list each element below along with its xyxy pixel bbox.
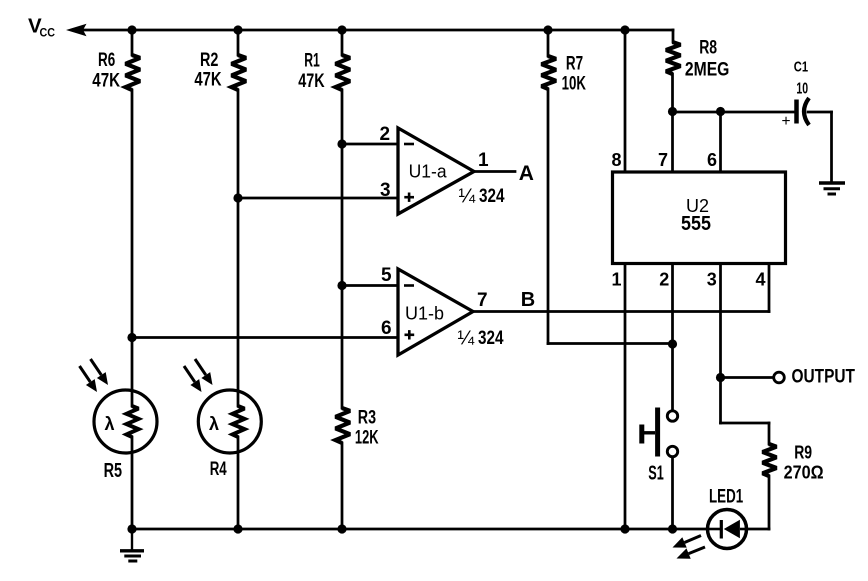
svg-text:2: 2 xyxy=(659,269,669,289)
svg-text:324: 324 xyxy=(478,327,504,349)
svg-text:555: 555 xyxy=(681,213,711,235)
svg-text:A: A xyxy=(519,162,534,185)
svg-text:¼: ¼ xyxy=(458,327,475,349)
svg-text:1: 1 xyxy=(611,269,621,289)
svg-text:OUTPUT: OUTPUT xyxy=(792,365,856,387)
svg-text:3: 3 xyxy=(707,269,717,289)
svg-text:R5: R5 xyxy=(104,460,123,482)
svg-text:10K: 10K xyxy=(562,73,586,95)
svg-text:2: 2 xyxy=(380,124,391,145)
svg-text:47K: 47K xyxy=(298,70,324,92)
svg-text:R1: R1 xyxy=(304,50,320,72)
svg-text:B: B xyxy=(521,289,535,311)
svg-text:S1: S1 xyxy=(648,462,664,484)
svg-text:2MEG: 2MEG xyxy=(685,58,730,80)
svg-text:10: 10 xyxy=(796,81,808,98)
svg-text:+: + xyxy=(782,113,791,130)
svg-text:3: 3 xyxy=(380,180,391,201)
svg-text:47K: 47K xyxy=(92,69,120,91)
svg-text:R4: R4 xyxy=(210,459,227,480)
svg-text:U1-a: U1-a xyxy=(409,160,448,181)
svg-text:47K: 47K xyxy=(194,69,221,91)
svg-text:324: 324 xyxy=(479,185,505,207)
svg-text:7: 7 xyxy=(477,290,488,311)
svg-text:R9: R9 xyxy=(794,442,812,463)
svg-text:R3: R3 xyxy=(358,407,376,429)
svg-text:4: 4 xyxy=(755,269,765,289)
svg-text:8: 8 xyxy=(611,150,621,170)
svg-text:R6: R6 xyxy=(98,49,115,71)
svg-text:5: 5 xyxy=(381,265,392,286)
svg-text:R7: R7 xyxy=(566,52,583,74)
svg-text:12K: 12K xyxy=(355,427,379,449)
svg-text:6: 6 xyxy=(707,150,717,170)
svg-text:LED1: LED1 xyxy=(709,487,743,508)
svg-text:R8: R8 xyxy=(699,36,717,58)
svg-text:U1-b: U1-b xyxy=(405,303,444,324)
svg-text:C1: C1 xyxy=(794,60,808,76)
svg-text:CC: CC xyxy=(40,26,56,40)
svg-text:7: 7 xyxy=(658,150,668,170)
svg-text:λ: λ xyxy=(105,414,115,434)
svg-text:270Ω: 270Ω xyxy=(784,463,824,483)
svg-text:¼: ¼ xyxy=(459,185,476,207)
svg-text:1: 1 xyxy=(478,150,489,171)
svg-text:6: 6 xyxy=(381,318,392,339)
svg-text:λ: λ xyxy=(209,414,219,434)
